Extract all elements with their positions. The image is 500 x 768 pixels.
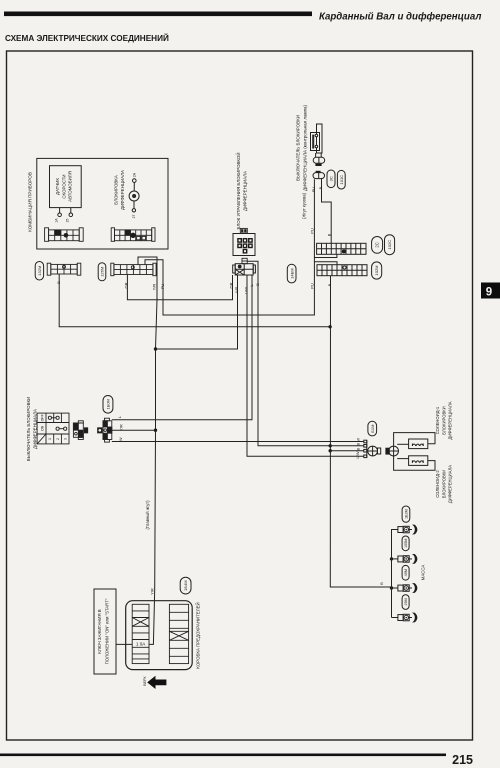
- fuse strip right: [169, 604, 188, 663]
- wire: OR net М26 to control unit: [127, 275, 232, 300]
- svg-text:ON: ON: [40, 425, 44, 431]
- connector М26 (harness side): [111, 263, 156, 276]
- svg-text:1Б4М: 1Б4М: [183, 580, 188, 590]
- label: ВЕРХ (arrow): [143, 676, 147, 686]
- svg-text:B: B: [327, 233, 332, 236]
- switch connector block B with oval 1Б0М: [98, 418, 112, 442]
- footer rule: [0, 754, 446, 757]
- fuse 10A cell: [136, 642, 146, 647]
- svg-text:B: B: [379, 582, 384, 585]
- svg-text:102С: 102С: [387, 240, 392, 250]
- connector oval 102С: [385, 235, 395, 255]
- svg-text:СКОРОСТИ: СКОРОСТИ: [61, 174, 66, 198]
- connector oval 105М: [402, 536, 409, 551]
- wire: B from switch down through strips to ground bus: [322, 178, 392, 587]
- svg-text:2: 2: [56, 438, 60, 440]
- label: СОЛЕНОИД-2 БЛОКИРОВКИ ДИФФЕРЕНЦИАЛА: [435, 465, 453, 503]
- svg-text:OFF: OFF: [40, 413, 44, 421]
- wire label L (control unit): [249, 284, 254, 287]
- wire label B (to ground bus): [379, 582, 384, 585]
- speed sensor pin labels: [55, 218, 70, 223]
- header bar: [4, 12, 312, 17]
- wire: W switch to solenoid pin 1: [112, 441, 364, 443]
- svg-text:2С: 2С: [375, 242, 380, 247]
- connector oval 126М: [98, 263, 106, 281]
- vehicle speed sensor box (ДАТЧИК СКОРОСТИ АВТОМОБИЛЯ): [50, 166, 82, 208]
- svg-text:49М: 49М: [404, 569, 408, 576]
- wire: B from М32 down then right to ground net: [59, 274, 330, 327]
- connector oval 2С: [372, 237, 383, 254]
- svg-text:B: B: [327, 283, 332, 286]
- label: ВЫКЛЮЧАТЕЛЬ БЛОКИРОВКИ ДИФФЕРЕНЦИАЛА (контрольная лампа): [295, 104, 307, 191]
- label: КОРОБКА ПРЕДОХРАНИТЕЛЕЙ: [196, 602, 201, 668]
- svg-text:ДИФФЕРЕНЦИАЛА (контрольная лам: ДИФФЕРЕНЦИАЛА (контрольная лампа): [303, 104, 308, 191]
- differential lock warning lamp: [129, 179, 139, 212]
- wire: L control unit to diff lock switch: [112, 275, 252, 420]
- label: (Главный жгут): [145, 500, 150, 530]
- svg-text:14БМ: 14БМ: [289, 268, 294, 278]
- diff lock switch contact table: [37, 413, 69, 444]
- svg-text:Y/R: Y/R: [149, 588, 154, 595]
- wire: Y/R main vertical (М26 to fuse box): [138, 257, 157, 644]
- wire label OR (М26): [124, 282, 129, 288]
- label: ДАТЧИК СКОРОСТИ АВТОМОБИЛЯ: [55, 171, 73, 202]
- label: (Жгут кузова): [302, 192, 307, 219]
- wire: B control unit to solenoid pin 2: [247, 261, 364, 446]
- wire: solenoid 2 leads: [394, 456, 435, 470]
- ground terminal 1 (Б2М): [398, 525, 417, 535]
- solenoid connector wire terminals and labels W B B L/W: [355, 438, 361, 459]
- label: БЛОК УПРАВЛЕНИЯ БЛОКИРОВКОЙ ДИФФЕРЕНЦИАЛА: [236, 152, 248, 229]
- wire label Y/R (М26): [152, 284, 157, 291]
- svg-text:B: B: [355, 448, 360, 451]
- connector oval 19М: [402, 595, 409, 610]
- label: БЛОКИРОВКА ДИФФЕРЕНЦИАЛА: [114, 170, 125, 210]
- wire label L/W (control unit): [243, 287, 248, 294]
- svg-text:(Главный жгут): (Главный жгут): [145, 500, 150, 530]
- label: СОЛЕНОИД-1 БЛОКИРОВКИ ДИФФЕРЕНЦИАЛА: [435, 401, 453, 439]
- label: КЛЮЧ ЗАЖИГАНИЯ В ПОЛОЖЕНИИ ON или START: [97, 598, 110, 664]
- wire: L/W control unit to solenoid pin 4: [247, 275, 364, 456]
- ground terminal 2 (105М): [398, 554, 417, 564]
- control unit harness connector: [233, 264, 256, 275]
- page section title: [5, 32, 169, 43]
- svg-text:9: 9: [486, 287, 492, 299]
- svg-text:L/W: L/W: [243, 287, 248, 294]
- wire: PU net М26 to body connector strips and switch: [145, 179, 314, 315]
- inline connector pair 2 (3C/101C bullets): [313, 171, 325, 179]
- instrument cluster box (КОМБИНАЦИЯ ПРИБОРОВ): [37, 158, 168, 249]
- lamp pin labels 2A / 27: [132, 172, 137, 218]
- svg-text:1: 1: [48, 438, 52, 440]
- connector oval 132М: [35, 262, 43, 281]
- svg-text:ДАТЧИК: ДАТЧИК: [55, 178, 60, 195]
- connector М32 (harness side): [47, 263, 81, 275]
- svg-text:B: B: [355, 443, 360, 446]
- wire: B solenoid pin 3 stub: [330, 450, 364, 452]
- header title: [319, 12, 481, 23]
- wire label B (switch): [318, 186, 323, 189]
- wire: Y/R switch branch to main vertical: [112, 429, 156, 431]
- ground terminal 3 (49М): [398, 583, 417, 593]
- svg-text:B: B: [56, 281, 61, 284]
- wire label PU (right vertical, above strips): [310, 228, 315, 234]
- svg-text:1A: 1A: [55, 218, 59, 223]
- wire label PU (М26): [160, 284, 165, 290]
- svg-text:PU: PU: [311, 187, 316, 193]
- fuse strip left: [132, 604, 149, 663]
- svg-text:БЛОК УПРАВЛЕНИЯ БЛОКИРОВКОЙ: БЛОК УПРАВЛЕНИЯ БЛОКИРОВКОЙ: [236, 152, 241, 229]
- svg-text:(Жгут кузова): (Жгут кузова): [302, 192, 307, 219]
- svg-text:L/W: L/W: [355, 451, 360, 458]
- svg-text:102М: 102М: [374, 265, 379, 275]
- svg-text:ДИФФЕРЕНЦИАЛА: ДИФФЕРЕНЦИАЛА: [448, 401, 453, 439]
- wire label Y/R (to fuse box): [149, 588, 154, 595]
- switch pin numbers 1 2 3: [48, 438, 67, 440]
- wire label Y/R (switch): [118, 424, 123, 431]
- svg-text:КЛЮЧ ЗАЖИГАНИЯ В: КЛЮЧ ЗАЖИГАНИЯ В: [97, 609, 102, 653]
- svg-text:27: 27: [132, 215, 136, 219]
- svg-text:126М: 126М: [100, 267, 105, 277]
- svg-text:105М: 105М: [404, 539, 408, 549]
- connector oval 49М: [402, 565, 409, 580]
- solenoid 2 coil: [409, 456, 428, 466]
- svg-text:Карданный Вал и дифференциал: Карданный Вал и дифференциал: [319, 12, 481, 23]
- junction dots: [154, 325, 393, 590]
- connector oval 1Б4М: [180, 577, 191, 594]
- cluster in-box connector 1: [45, 228, 84, 242]
- svg-text:БЛОКИРОВКИ: БЛОКИРОВКИ: [441, 406, 446, 434]
- wire label B (control unit): [255, 283, 260, 286]
- fuse box (КОРОБКА ПРЕДОХРАНИТЕЛЕЙ): [126, 601, 193, 670]
- svg-text:Y/R: Y/R: [152, 284, 157, 291]
- svg-text:PU: PU: [310, 228, 315, 234]
- svg-text:1 0A: 1 0A: [136, 642, 146, 647]
- svg-text:АВТОМОБИЛЯ: АВТОМОБИЛЯ: [68, 171, 73, 202]
- connector oval Б2М: [402, 506, 410, 522]
- svg-text:25: 25: [66, 219, 70, 223]
- svg-text:132М: 132М: [37, 266, 42, 276]
- svg-text:СХЕМА ЭЛЕКТРИЧЕСКИХ СОЕДИНЕНИЙ: СХЕМА ЭЛЕКТРИЧЕСКИХ СОЕДИНЕНИЙ: [5, 32, 169, 43]
- page number 215: [452, 753, 473, 767]
- solenoid 1 coil: [409, 439, 428, 449]
- svg-text:КОМБИНАЦИЯ ПРИБОРОВ: КОМБИНАЦИЯ ПРИБОРОВ: [28, 172, 33, 232]
- connector oval 101С: [337, 170, 345, 189]
- connector oval 3С: [327, 170, 335, 188]
- wire label W (switch): [118, 437, 123, 441]
- ground bus vertical: [392, 530, 398, 618]
- switch table text OFF/ON and contacts: [40, 413, 44, 431]
- wire label B (below strip): [327, 283, 332, 286]
- svg-text:1Б0М: 1Б0М: [106, 399, 111, 409]
- svg-text:ДИФФЕРЕНЦИАЛА: ДИФФЕРЕНЦИАЛА: [243, 171, 248, 211]
- svg-text:ПОЛОЖЕНИИ "ON" или "START": ПОЛОЖЕНИИ "ON" или "START": [105, 598, 110, 664]
- front direction arrow: [147, 676, 166, 689]
- body connector strip 2С: [314, 243, 366, 257]
- svg-text:Б1М: Б1М: [370, 425, 375, 433]
- svg-text:W: W: [355, 438, 360, 442]
- ground terminal 4 (19М): [398, 613, 417, 623]
- connector oval 102М: [372, 262, 382, 279]
- chapter tab 9: [481, 283, 500, 299]
- solenoid harness connector (round, Б1М): [364, 440, 381, 457]
- connector oval 1Б0М: [103, 396, 113, 414]
- switch contacts OFF row: [48, 416, 59, 419]
- svg-text:PU: PU: [310, 283, 315, 289]
- svg-text:B: B: [318, 186, 323, 189]
- switch connector block A: [73, 421, 87, 440]
- body connector strip 102М: [314, 262, 367, 276]
- diff lock control unit connector (face view): [233, 234, 255, 256]
- label: ВЫКЛЮЧАТЕЛЬ БЛОКИРОВКИ ДИФФЕРЕНЦИАЛА (left switch): [26, 397, 38, 461]
- label: КОМБИНАЦИЯ ПРИБОРОВ: [28, 172, 33, 232]
- svg-text:ВЫКЛЮЧАТЕЛЬ БЛОКИРОВКИ: ВЫКЛЮЧАТЕЛЬ БЛОКИРОВКИ: [26, 397, 31, 461]
- svg-text:2A: 2A: [133, 172, 137, 177]
- speed sensor terminal leads: [58, 208, 73, 217]
- wire label OR (control unit): [229, 282, 234, 288]
- wire: solenoid 1 leads: [394, 433, 435, 447]
- svg-text:3: 3: [63, 438, 67, 440]
- wire label B (М32): [56, 281, 61, 284]
- control unit harness connector stack: [242, 258, 247, 263]
- ignition key box (КЛЮЧ ЗАЖИГАНИЯ): [94, 589, 116, 674]
- svg-text:ВЫКЛЮЧАТЕЛЬ БЛОКИРОВКИ: ВЫКЛЮЧАТЕЛЬ БЛОКИРОВКИ: [295, 115, 300, 181]
- cluster in-box connector 2: [111, 228, 155, 242]
- wire: Y/R branch control unit to main vertical: [156, 275, 238, 349]
- svg-text:ВЕРХ: ВЕРХ: [143, 676, 147, 686]
- connector oval Б1М: [368, 421, 377, 436]
- control unit pilot connector (above face): [240, 228, 247, 233]
- wire label B (above strip): [327, 233, 332, 236]
- wire: ignition key to 10A fuse: [116, 643, 132, 645]
- svg-text:ДИФФЕРЕНЦИАЛА: ДИФФЕРЕНЦИАЛА: [448, 465, 453, 503]
- switch contacts ON row: [56, 427, 67, 430]
- connector oval 14БМ: [287, 264, 296, 283]
- svg-text:МАССА: МАССА: [421, 565, 426, 581]
- svg-text:101С: 101С: [339, 175, 344, 185]
- svg-text:БЛОКИРОВКИ: БЛОКИРОВКИ: [441, 470, 446, 498]
- svg-text:W: W: [118, 437, 123, 441]
- svg-text:СОЛЕНОИД-2: СОЛЕНОИД-2: [435, 470, 440, 498]
- svg-text:1Б2М: 1Б2М: [405, 509, 409, 519]
- svg-text:ДИФФЕРЕНЦИАЛА: ДИФФЕРЕНЦИАЛА: [120, 170, 125, 210]
- wire label L (switch): [117, 415, 122, 418]
- svg-text:19М: 19М: [404, 598, 408, 605]
- svg-text:БЛОКИРОВКА: БЛОКИРОВКА: [114, 175, 119, 205]
- solenoid side connector (round with black key): [386, 446, 399, 456]
- svg-text:215: 215: [452, 753, 473, 767]
- diff lock indicator switch symbol: [311, 124, 323, 153]
- svg-text:КОРОБКА ПРЕДОХРАНИТЕЛЕЙ: КОРОБКА ПРЕДОХРАНИТЕЛЕЙ: [196, 602, 201, 668]
- svg-text:3С: 3С: [329, 176, 334, 181]
- wire label PU (switch): [311, 187, 316, 193]
- svg-text:Y/R: Y/R: [234, 287, 239, 294]
- inline connector pair 1 (switch pigtail): [313, 153, 325, 166]
- wire label PU (below strips): [310, 283, 315, 289]
- svg-text:СОЛЕНОИД-1: СОЛЕНОИД-1: [435, 406, 440, 434]
- label: МАССА: [421, 565, 426, 581]
- wire label Y/R (control unit): [234, 287, 239, 294]
